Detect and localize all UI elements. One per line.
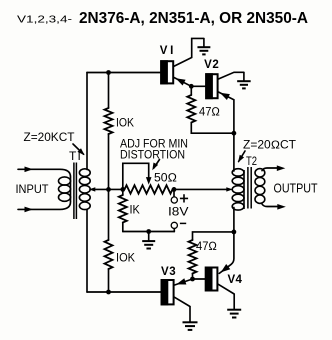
svg-text:VI: VI [160, 45, 176, 57]
svg-text:OUTPUT: OUTPUT [274, 180, 318, 195]
svg-text:50Ω: 50Ω [154, 171, 177, 185]
svg-text:V3: V3 [161, 266, 176, 278]
svg-text:47Ω: 47Ω [196, 239, 217, 253]
svg-text:T2: T2 [246, 154, 257, 168]
svg-text:DISTORTION: DISTORTION [120, 150, 185, 162]
svg-text:IOK: IOK [116, 115, 134, 129]
svg-text:IK: IK [130, 202, 140, 216]
svg-text:V1,2,3,4-: V1,2,3,4- [17, 15, 72, 26]
svg-text:V2: V2 [204, 59, 219, 71]
svg-text:I8V: I8V [168, 205, 189, 219]
svg-text:Z=20KCT: Z=20KCT [24, 132, 75, 144]
svg-text:Z=20ΩCT: Z=20ΩCT [243, 140, 296, 152]
svg-text:2N376-A, 2N351-A, OR 2N350-A: 2N376-A, 2N351-A, OR 2N350-A [79, 10, 308, 27]
svg-text:TI: TI [69, 149, 82, 163]
svg-text:V4: V4 [228, 274, 243, 286]
svg-text:IOK: IOK [116, 251, 135, 265]
svg-text:INPUT: INPUT [16, 182, 50, 196]
svg-text:47Ω: 47Ω [199, 105, 220, 119]
